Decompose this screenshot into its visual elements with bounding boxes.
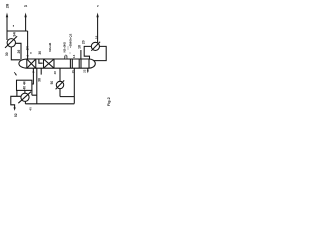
wire line 24 down to vessel	[27, 31, 29, 59]
svg-text:36: 36	[38, 51, 42, 55]
svg-text:14: 14	[72, 54, 76, 58]
small arrow mark above box	[14, 72, 16, 74]
svg-text:46: 46	[22, 86, 26, 90]
partition pair 12	[70, 59, 72, 68]
wire P3 riser	[59, 68, 61, 81]
svg-text:34: 34	[12, 32, 17, 37]
catalyst bed X-box 1	[27, 59, 36, 68]
P4 slash	[91, 42, 100, 51]
P1 slash	[5, 36, 17, 48]
nozzle stub 36	[40, 68, 42, 74]
arrowhead downcomer 1	[32, 69, 34, 72]
wire line 18	[80, 50, 82, 59]
wire long downcomer	[73, 68, 75, 103]
compressor P1 (circle 34)	[7, 39, 15, 47]
wire branch to box	[32, 90, 37, 95]
tick near arrow	[13, 25, 14, 26]
outlet arrow below vessel right end	[87, 68, 89, 71]
P2 slash	[18, 92, 31, 104]
svg-text:48: 48	[53, 71, 57, 75]
arrowhead product	[96, 13, 98, 18]
separator box 42	[17, 80, 32, 90]
wire purge line (second arrow riser)	[25, 16, 27, 32]
tick 24	[30, 52, 31, 53]
svg-text:Fig.2: Fig.2	[107, 97, 111, 106]
svg-text:50: 50	[50, 81, 54, 85]
vessel left end cap	[19, 59, 27, 68]
nozzle stub b	[66, 56, 68, 59]
wire downcomer 1	[32, 68, 34, 84]
svg-text:22: 22	[83, 69, 87, 73]
wire P3 stem	[59, 89, 61, 97]
wire downcomer 2	[36, 68, 38, 104]
svg-text:30: 30	[5, 52, 9, 56]
vessel shell top	[27, 58, 89, 60]
wire header 32	[7, 30, 28, 32]
pump P3 circle	[56, 81, 63, 88]
vessel right body end line	[88, 59, 90, 68]
vessel right end cap	[89, 59, 95, 68]
wire P4 right loop	[94, 46, 106, 60]
circulator P4 (circle 16)	[91, 42, 99, 50]
wire feed line 28 (left arrow riser)	[6, 16, 8, 41]
svg-text:24: 24	[24, 4, 28, 8]
svg-text:24: 24	[25, 46, 29, 50]
svg-text:=2NH3+Q2: =2NH3+Q2	[69, 33, 73, 48]
wire P1 bottom 30	[11, 47, 20, 60]
svg-text:18: 18	[78, 45, 82, 49]
nozzle stub a	[64, 56, 66, 59]
wire P4 left elbow 20	[84, 46, 91, 59]
svg-text:N2+H2: N2+H2	[48, 42, 52, 51]
svg-text:40: 40	[28, 107, 32, 111]
P3 slash	[56, 80, 65, 89]
svg-text:28: 28	[4, 3, 9, 8]
catalyst bed X-box 2	[44, 59, 55, 68]
internal inlet elbow	[39, 59, 43, 63]
arrowhead line 24	[27, 55, 29, 58]
svg-text:38: 38	[37, 78, 41, 82]
svg-text:26: 26	[17, 50, 21, 54]
arrowhead purge	[24, 13, 26, 18]
svg-text:20: 20	[81, 40, 85, 44]
svg-text:::: ::	[68, 52, 72, 54]
svg-text:52: 52	[14, 113, 18, 117]
svg-text:16: 16	[94, 35, 98, 39]
wire box drain stub	[16, 90, 18, 96]
wire product riser 2 (top right)	[97, 16, 99, 43]
svg-text:44: 44	[22, 81, 26, 85]
vessel shell bottom	[27, 67, 89, 69]
arrowhead exit down	[14, 107, 16, 111]
arrowhead feed 28	[6, 13, 8, 18]
wire P2 left exit 52	[11, 96, 21, 108]
partition pair 14	[79, 59, 81, 68]
wire recycle loop horizontal	[60, 96, 74, 98]
svg-text:15: 15	[71, 70, 75, 74]
pump P2 circle	[21, 93, 29, 101]
wire bottom header	[25, 103, 74, 105]
wire P2 stem to header	[24, 101, 26, 103]
wire P1 outlet 26	[16, 43, 22, 59]
wire box to P2	[24, 90, 26, 93]
